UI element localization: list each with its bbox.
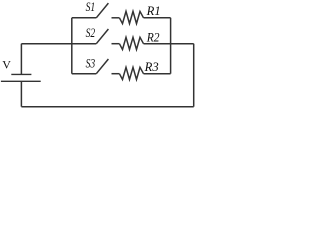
switch S3 <box>96 59 108 74</box>
wire branch2 right <box>144 43 194 45</box>
wire left bus <box>71 18 73 74</box>
switch S2 <box>96 29 108 44</box>
wire battery bottom lead <box>20 81 22 106</box>
svg-text:S2: S2 <box>86 26 96 40</box>
svg-text:S3: S3 <box>86 57 96 71</box>
switch S1 <box>96 3 108 18</box>
battery V plates <box>1 74 41 81</box>
wire bottom return <box>21 106 193 108</box>
wire branch3 left <box>72 73 97 75</box>
wire branch1 mid <box>112 17 120 19</box>
wire branch3 mid <box>112 73 120 75</box>
wire branch3 right <box>144 73 171 75</box>
wire main from battery top to S2 hinge <box>21 43 96 45</box>
resistor R2 <box>119 37 143 49</box>
wire branch2 mid <box>112 43 120 45</box>
wire battery top lead <box>20 44 22 75</box>
svg-text:S1: S1 <box>86 0 96 14</box>
wire branch1 drop <box>170 18 172 74</box>
svg-text:R2: R2 <box>146 31 160 45</box>
resistor R1 <box>119 11 143 23</box>
wire right bus <box>193 44 195 107</box>
wire branch1 left <box>72 17 97 19</box>
svg-text:R3: R3 <box>144 60 159 74</box>
resistor R3 <box>119 67 143 79</box>
wire branch1 right <box>144 17 171 19</box>
svg-text:R1: R1 <box>146 4 161 18</box>
svg-text:V: V <box>2 58 11 72</box>
